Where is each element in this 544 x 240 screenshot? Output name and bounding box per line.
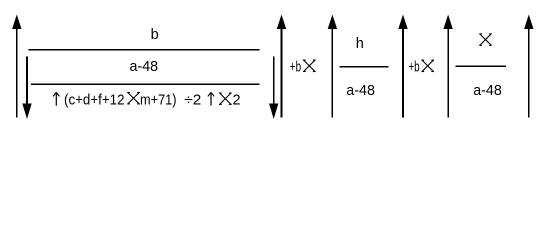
mult in 12xm [127, 93, 140, 104]
up arrow R2 [277, 15, 286, 118]
svg-text:a-48: a-48 [346, 83, 375, 99]
up arrow D [524, 15, 533, 118]
svg-text:+b: +b [408, 59, 419, 75]
fraction bar h [340, 66, 389, 68]
svg-text:h: h [356, 36, 364, 52]
up arrow A [328, 15, 337, 118]
svg-text:a-48: a-48 [130, 59, 159, 75]
svg-text:÷2: ÷2 [184, 92, 201, 108]
bottom text up arrow 2 [208, 92, 214, 105]
up arrow B [398, 15, 407, 118]
up arrow L1 [12, 15, 21, 118]
svg-text:(c+d+f+12: (c+d+f+12 [64, 92, 125, 108]
down arrow R1 [269, 56, 278, 119]
numerator mult (x fraction) [479, 34, 492, 45]
up arrow C [443, 15, 452, 118]
down arrow L2 [22, 56, 31, 119]
svg-text:m+71): m+71) [140, 92, 177, 108]
bottom text: up arrow [53, 92, 59, 105]
svg-text:b: b [151, 27, 159, 43]
fraction bar 1 [29, 49, 260, 51]
fraction bar x [456, 65, 507, 67]
fraction bar 2 [31, 83, 259, 85]
mult x2 [219, 93, 232, 104]
svg-text:2: 2 [233, 92, 241, 108]
svg-text:+b: +b [290, 59, 301, 75]
svg-text:a-48: a-48 [473, 83, 502, 99]
